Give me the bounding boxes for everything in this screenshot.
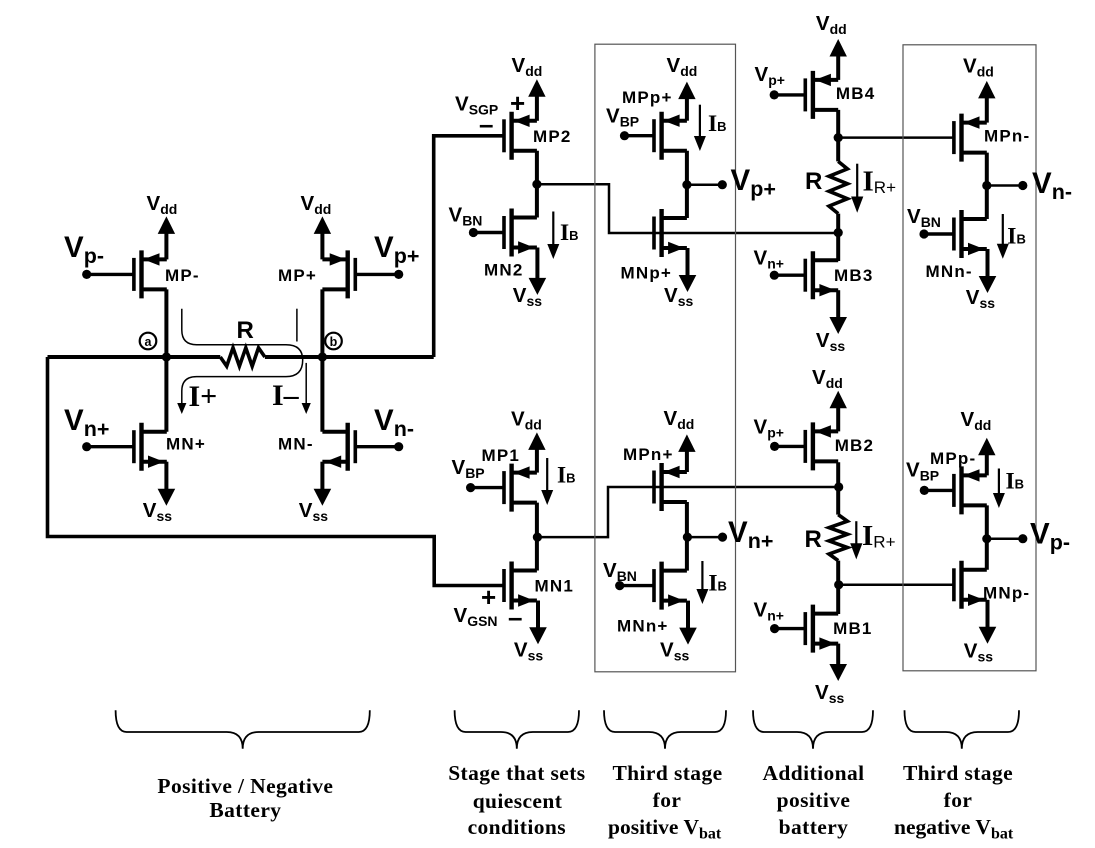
node a junction dot — [162, 352, 171, 361]
svg-text:Third stage: Third stage — [903, 761, 1013, 785]
node b junction dot — [318, 352, 327, 361]
PMOS transistor MB2 — [770, 422, 838, 470]
svg-text:Battery: Battery — [209, 798, 281, 822]
svg-text:–: – — [479, 109, 493, 139]
svg-text:Additional: Additional — [763, 761, 865, 785]
junction dot Vp+ output node — [682, 180, 691, 189]
current arrow IR+ (lower) — [850, 520, 895, 559]
wire MPn- drain to MNn- drain — [985, 153, 989, 219]
feedback wire node a to MN1 gate — [48, 357, 506, 586]
PMOS transistor MP2 — [504, 112, 537, 160]
wire MP+ drain to node b — [320, 289, 324, 357]
svg-text:quiescent: quiescent — [473, 789, 563, 813]
NMOS transistor MN+ — [82, 423, 167, 471]
wire node a to MN+ drain — [164, 357, 168, 432]
svg-text:MNn+: MNn+ — [617, 617, 669, 636]
NMOS transistor MN1 — [504, 562, 537, 610]
Vss rail at MNn+ — [660, 601, 697, 664]
Vdd rail at MP+ — [301, 192, 332, 259]
current loop annotation for I+ / I- — [177, 309, 311, 414]
wire MPn+ drain to MNn+ drain — [685, 502, 689, 571]
junction dot MB2/R and MPn+ gate node — [834, 482, 843, 491]
NMOS transistor MN2 — [469, 209, 537, 257]
bias current arrow IB at MNn+ — [696, 561, 727, 604]
node b circled label — [325, 333, 342, 350]
NMOS transistor MNp+ — [654, 209, 687, 257]
svg-text:MP+: MP+ — [278, 266, 317, 285]
box: third stage for negative Vbat — [903, 45, 1036, 671]
svg-text:MN1: MN1 — [535, 577, 575, 596]
output lead Vn- — [987, 184, 1023, 187]
Vss rail at MNn- — [966, 249, 997, 311]
feedback wire node b to MP2 gate — [434, 136, 505, 357]
junction dot MP1/MN1 output — [533, 533, 542, 542]
bias current arrow IB at MN2 — [547, 212, 578, 260]
wire: node a main rail to node b — [48, 355, 221, 359]
svg-text:Stage that sets: Stage that sets — [448, 761, 585, 785]
svg-text:Positive / Negative: Positive / Negative — [157, 774, 333, 798]
Vss rail at MN+ — [143, 462, 175, 524]
Vdd rail at MP- — [147, 192, 178, 259]
PMOS transistor MPn+ — [654, 463, 687, 511]
NMOS transistor MNn- — [919, 210, 986, 258]
wire battery node to MPn- gate — [838, 136, 955, 139]
svg-text:MNn-: MNn- — [926, 262, 973, 281]
PMOS transistor MP- — [82, 250, 167, 298]
resistor R (upper battery) — [829, 161, 847, 213]
box: third stage for positive Vbat — [595, 44, 736, 672]
output lead Vn+ — [687, 536, 722, 539]
NMOS transistor MN- — [322, 423, 403, 471]
svg-text:–: – — [508, 602, 522, 632]
resistor R (battery section) — [220, 348, 265, 366]
PMOS transistor MPp- — [920, 466, 987, 514]
svg-text:MB3: MB3 — [834, 266, 874, 285]
bias current arrow IB at MNn- — [997, 214, 1026, 259]
wire MP1 drain to MN1 drain — [535, 503, 539, 571]
bias current arrow IB at MP1 — [541, 458, 575, 505]
svg-text:for: for — [653, 788, 682, 812]
junction dot MB4/R and MPn- gate node — [834, 133, 843, 142]
junction dot Vn+ output node — [683, 533, 692, 542]
svg-text:MB1: MB1 — [833, 619, 873, 638]
PMOS transistor MPp+ — [620, 112, 687, 160]
svg-text:+: + — [510, 88, 525, 118]
Vss rail at MN1 — [514, 601, 547, 664]
wire resistor to MB3 drain node — [836, 214, 840, 261]
svg-text:MN-: MN- — [278, 435, 314, 454]
Vdd rail at MP1 — [511, 408, 546, 473]
Vss rail at MB3 — [816, 290, 847, 354]
junction dot Vp- output node — [982, 534, 991, 543]
brace third stage for negative Vbat — [905, 710, 1020, 748]
svg-text:MNp+: MNp+ — [621, 264, 673, 283]
wire resistor to MB1 drain node — [836, 561, 840, 614]
Vdd rail at MB4 — [816, 12, 847, 80]
wire: resistor right side to MP2-gate riser — [265, 355, 434, 359]
node a circled label — [140, 333, 157, 350]
junction dot R/MB3 node — [834, 228, 843, 237]
svg-text:MB4: MB4 — [836, 84, 876, 103]
wire battery node to MNp- gate — [839, 584, 955, 587]
Vdd rail at MPp+ — [667, 54, 698, 121]
NMOS transistor MB1 — [770, 605, 838, 653]
svg-text:MPn+: MPn+ — [623, 445, 674, 464]
output lead Vp- — [987, 537, 1023, 540]
svg-text:b: b — [330, 335, 338, 349]
svg-text:MN2: MN2 — [484, 261, 524, 280]
current arrow IR+ (upper) — [851, 164, 896, 213]
junction dot Vn- output node — [982, 181, 991, 190]
wire MB4 drain to resistor — [836, 110, 840, 161]
output lead Vp+ — [687, 183, 722, 186]
svg-text:I+: I+ — [189, 380, 218, 413]
brace positive/negative battery — [116, 710, 370, 748]
svg-text:Third stage: Third stage — [612, 761, 722, 785]
Vdd rail at MB2 — [812, 366, 847, 431]
Vss rail at MN- — [299, 462, 331, 524]
wire MB2 drain to resistor (lower) — [836, 462, 840, 514]
wire MP2/MN2 output to MNp+ gate and battery node — [537, 184, 838, 233]
wire MP2 drain to MN2 drain — [535, 151, 539, 218]
Vss rail at MNp+ — [664, 248, 696, 309]
brace third stage for positive Vbat — [604, 710, 726, 748]
NMOS transistor MNp- — [954, 561, 987, 609]
NMOS transistor MNn+ — [615, 562, 687, 610]
Vss rail at MN2 — [513, 248, 546, 310]
svg-text:MN+: MN+ — [166, 435, 206, 454]
wire MPp- drain to MNp- drain — [985, 505, 989, 569]
Vss rail at MB1 — [815, 644, 847, 706]
svg-text:a: a — [145, 335, 153, 349]
PMOS transistor MP+ — [322, 250, 403, 298]
svg-text:+: + — [481, 582, 496, 612]
Vdd rail at MPn- — [963, 54, 996, 122]
PMOS transistor MP1 — [466, 464, 537, 512]
svg-text:battery: battery — [779, 815, 849, 839]
bias current arrow IB at MPp- — [993, 469, 1024, 509]
svg-text:positive: positive — [777, 788, 851, 812]
wire node b to MN- drain — [320, 357, 324, 432]
wire MP1/MN1 output to MPn+ gate and battery node — [537, 487, 838, 537]
svg-text:R: R — [237, 317, 254, 344]
junction dot MP2/MN2 output — [532, 180, 541, 189]
svg-text:I–: I– — [272, 379, 300, 412]
svg-text:MP-: MP- — [165, 266, 200, 285]
svg-text:MNp-: MNp- — [983, 584, 1030, 603]
svg-text:for: for — [944, 788, 973, 812]
brace additional positive battery — [753, 710, 873, 748]
PMOS transistor MB4 — [770, 71, 839, 119]
Vdd rail at MP2 — [512, 54, 546, 121]
bias current arrow IB at MPp+ — [694, 105, 727, 151]
svg-text:MP2: MP2 — [533, 127, 572, 146]
Vdd rail at MPp- — [961, 408, 996, 475]
wire MPp+ drain to MNp+ drain — [685, 151, 689, 218]
Vdd rail at MPn+ — [664, 407, 696, 472]
svg-text:MPn-: MPn- — [984, 127, 1030, 146]
svg-text:MPp-: MPp- — [930, 449, 976, 468]
Vss rail at MNp- — [964, 600, 997, 665]
brace stage that sets quiescent conditions — [455, 710, 579, 748]
svg-text:MP1: MP1 — [482, 446, 521, 465]
junction dot R/MB1 node and MNp- gate node — [834, 580, 843, 589]
wire MP- drain to node a — [164, 289, 168, 357]
svg-text:MPp+: MPp+ — [622, 88, 673, 107]
svg-text:R: R — [805, 168, 822, 195]
resistor R (lower battery) — [829, 515, 847, 561]
svg-text:R: R — [805, 526, 822, 553]
svg-text:conditions: conditions — [468, 815, 566, 839]
svg-text:MB2: MB2 — [835, 436, 875, 455]
NMOS transistor MB3 — [770, 251, 839, 299]
PMOS transistor MPn- — [954, 114, 987, 162]
